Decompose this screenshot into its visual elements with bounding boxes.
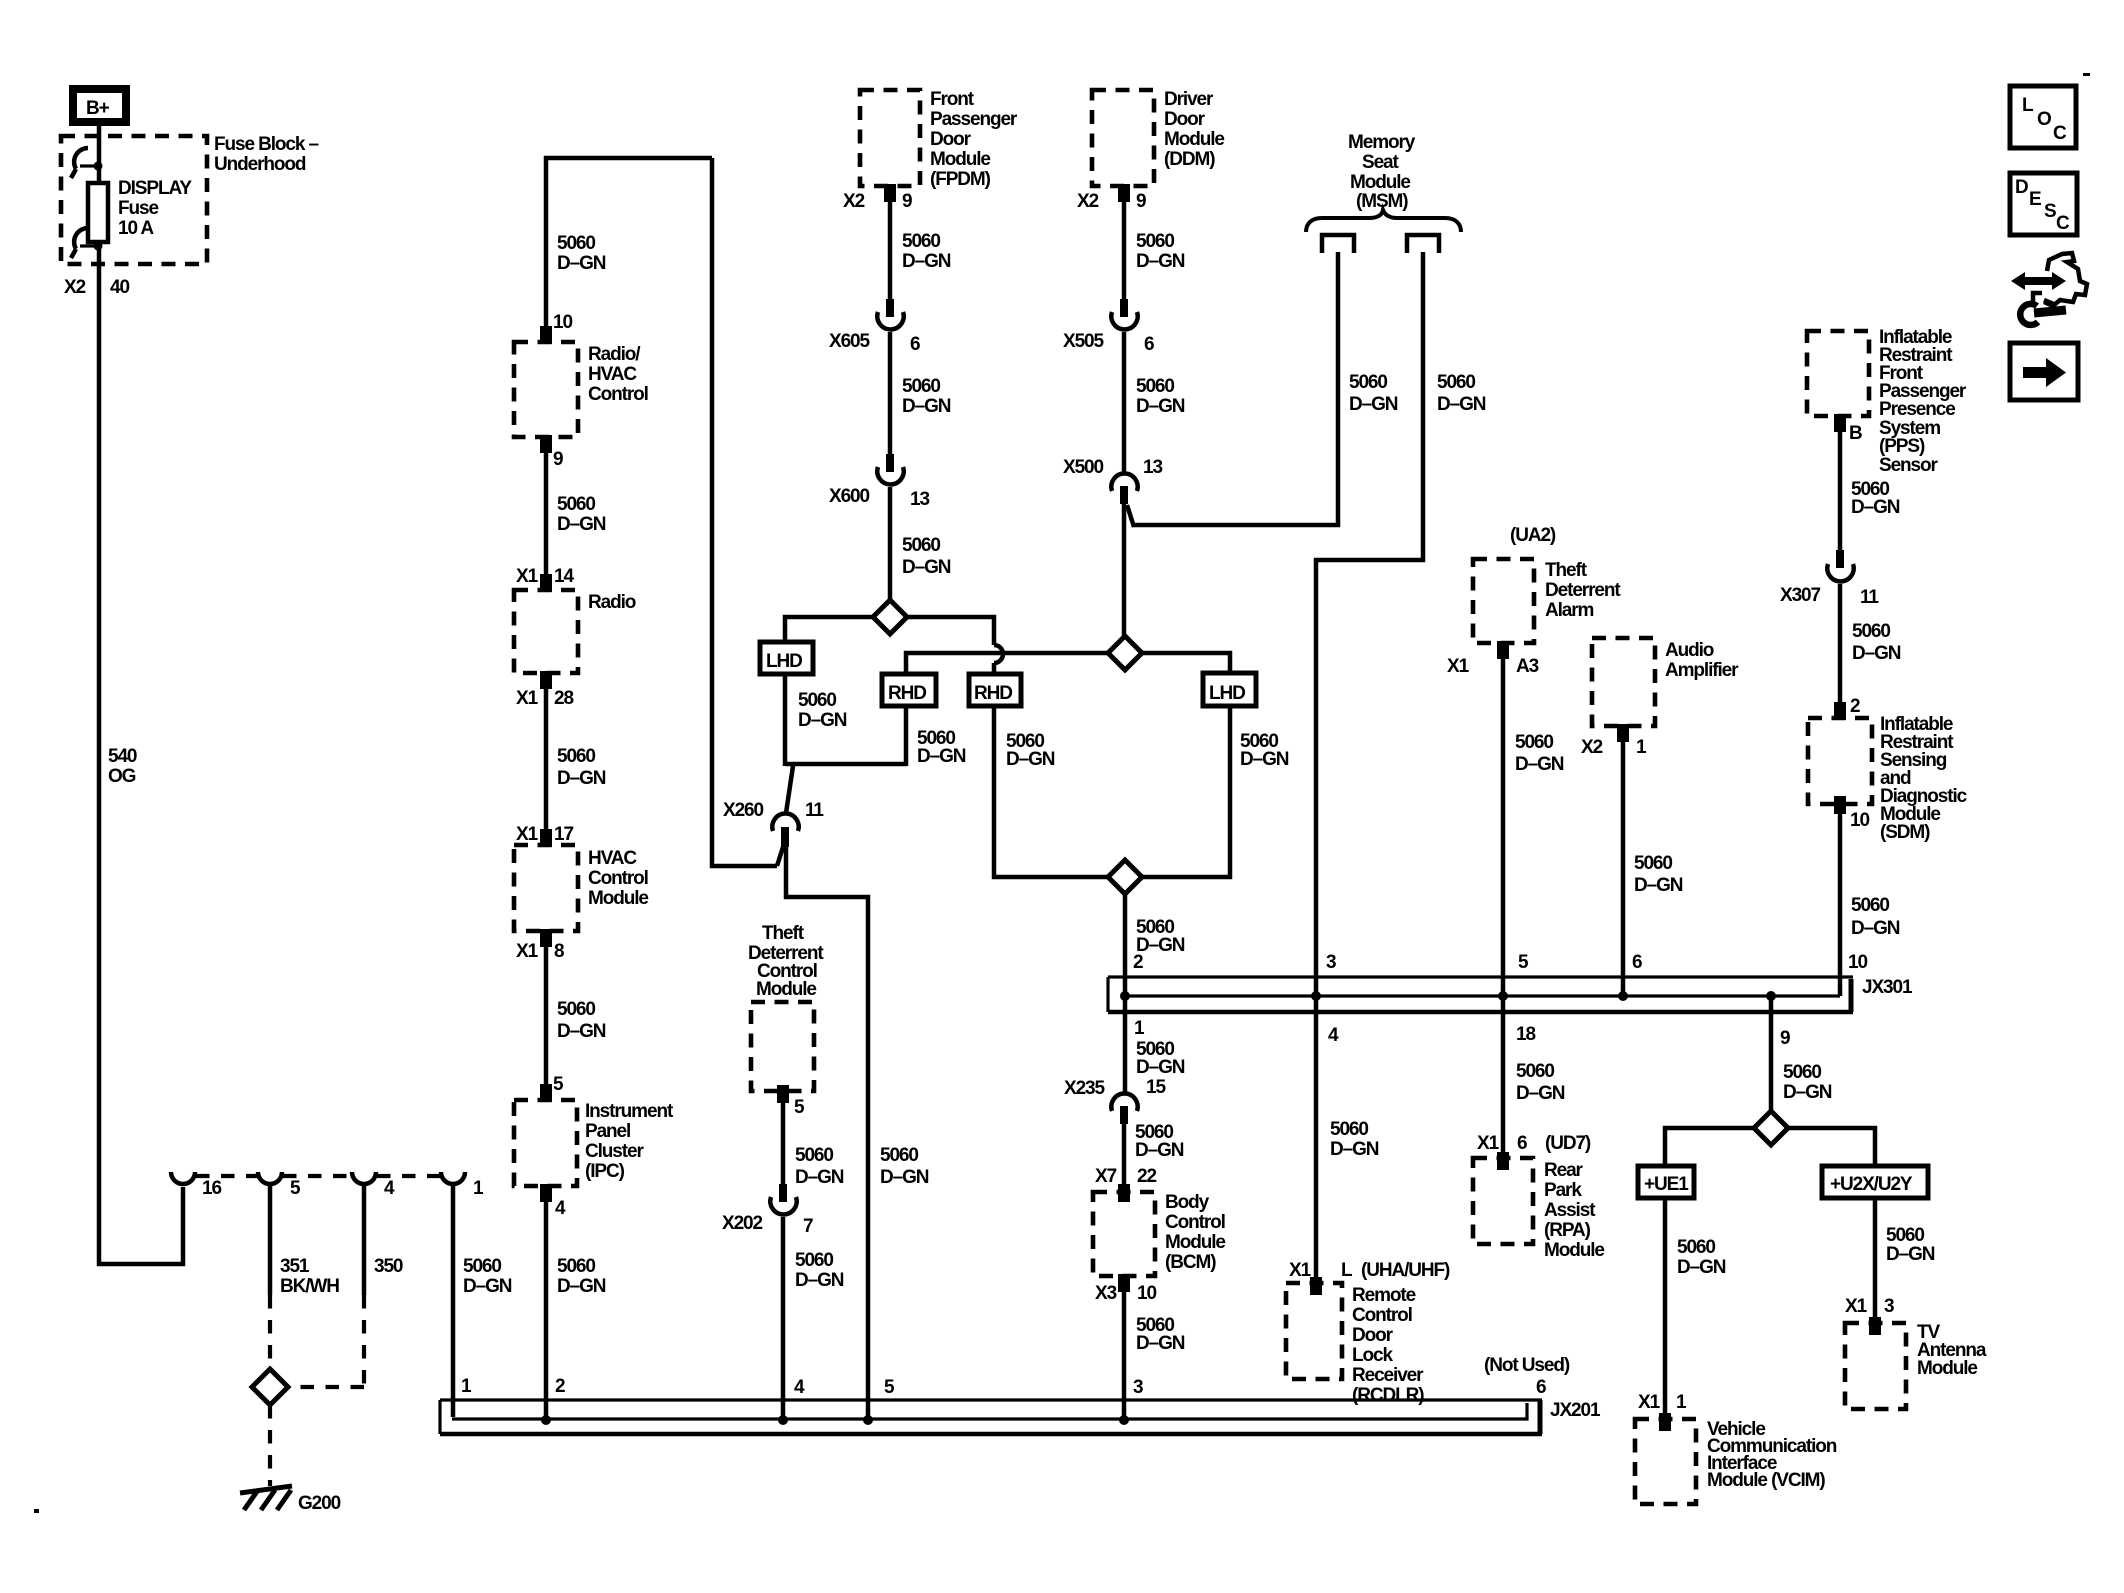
label Instrument Panel Cluster (IPC) (585, 1101, 674, 1182)
svg-text:10: 10 (1850, 810, 1869, 831)
connector label X1 L (UHA/UHF) (1289, 1260, 1450, 1281)
svg-text:5060: 5060 (1677, 1237, 1715, 1258)
svg-text:7: 7 (803, 1216, 813, 1237)
svg-text:Control: Control (1165, 1212, 1225, 1233)
Instrument Panel Cluster dashed box (514, 1100, 577, 1186)
wire RHD2 down to S3 (994, 706, 1108, 877)
svg-text:Sensor: Sensor (1879, 455, 1939, 476)
label 5060 D-GN (902, 535, 951, 578)
connector label X7 22 (1095, 1166, 1156, 1187)
svg-text:D–GN: D–GN (1677, 1257, 1726, 1278)
labels X505 6 (1063, 331, 1154, 355)
label 5060 D-GN (1677, 1237, 1726, 1278)
svg-text:5060: 5060 (880, 1145, 918, 1166)
pin stub (1497, 1152, 1509, 1170)
svg-text:Underhood: Underhood (214, 154, 306, 175)
svg-text:9: 9 (553, 449, 563, 470)
svg-text:Module: Module (1917, 1358, 1977, 1379)
connector label X1 3 TV (1845, 1296, 1894, 1317)
svg-text:Lock: Lock (1352, 1345, 1393, 1366)
labels X500 13 (1063, 457, 1162, 478)
pin stub (540, 1084, 552, 1102)
label Audio Amplifier (1665, 640, 1739, 681)
svg-text:B+: B+ (86, 98, 110, 119)
label 5060 D-GN (557, 999, 606, 1042)
svg-text:X1: X1 (516, 566, 539, 587)
label 5060 D-GN (557, 494, 606, 535)
svg-text:D–GN: D–GN (1437, 394, 1486, 415)
label 5060 D-GN (902, 231, 951, 272)
svg-text:D–GN: D–GN (1851, 918, 1900, 939)
svg-text:Door: Door (1352, 1325, 1394, 1346)
svg-text:S: S (2044, 201, 2056, 222)
wire 5060 D-GN DDM to X505 (1122, 186, 1127, 302)
RHD variant box 2 (969, 674, 1021, 706)
svg-text:Control: Control (1352, 1305, 1412, 1326)
svg-text:X605: X605 (829, 331, 871, 352)
label 5060 D-GN (557, 746, 606, 789)
svg-text:Memory: Memory (1348, 132, 1416, 153)
svg-text:OG: OG (108, 766, 136, 787)
svg-text:Presence: Presence (1879, 399, 1955, 420)
svg-text:4: 4 (555, 1198, 566, 1219)
connector label X2 9 DDM (1077, 191, 1146, 212)
svg-text:A3: A3 (1516, 656, 1539, 677)
svg-text:HVAC: HVAC (588, 848, 637, 869)
wire 5060 D-GN hvac to IPC (544, 931, 549, 1100)
svg-text:X1: X1 (516, 941, 539, 962)
TV Antenna Module dashed box (1845, 1323, 1906, 1409)
svg-text:X3: X3 (1095, 1283, 1117, 1304)
wire LHD2 down to S3 (1142, 706, 1230, 877)
svg-text:(RPA): (RPA) (1544, 1220, 1591, 1241)
svg-text:X1: X1 (1845, 1296, 1868, 1317)
connector X260 pin 11 (772, 766, 798, 866)
svg-text:5060: 5060 (1136, 231, 1174, 252)
svg-text:Radio: Radio (588, 592, 636, 613)
ground symbol G200 (240, 1486, 292, 1510)
svg-text:2: 2 (1133, 952, 1143, 973)
svg-text:13: 13 (1143, 457, 1162, 478)
svg-text:D: D (2015, 177, 2028, 198)
svg-text:(UD7): (UD7) (1545, 1133, 1591, 1154)
wire MSM right leg (1316, 252, 1423, 1283)
label 351 BK/WH (280, 1256, 339, 1297)
pin stub (540, 326, 552, 344)
wire 5060 D-GN X307 to SDM (1838, 584, 1843, 718)
svg-text:D–GN: D–GN (1330, 1139, 1379, 1160)
wire 5060 D-GN FPDM to X605 (888, 186, 893, 302)
svg-text:10: 10 (1137, 1283, 1156, 1304)
svg-text:X235: X235 (1064, 1078, 1106, 1099)
svg-text:Control: Control (588, 384, 648, 405)
svg-text:Module (VCIM): Module (VCIM) (1707, 1470, 1825, 1491)
Rear Park Assist Module dashed box (1473, 1158, 1533, 1244)
svg-text:Remote: Remote (1352, 1285, 1416, 1306)
label 5060 D-GN right leg (1437, 372, 1486, 415)
fuse block downstream terminal arc (71, 228, 103, 258)
svg-text:10: 10 (1848, 952, 1867, 973)
wire S2 to LHD2 (1142, 653, 1230, 676)
label Fuse Block - Underhood (214, 134, 319, 175)
svg-text:5060: 5060 (795, 1145, 833, 1166)
svg-text:D–GN: D–GN (1886, 1244, 1935, 1265)
svg-text:5060: 5060 (557, 494, 595, 515)
Body Control Module dashed box (1093, 1192, 1155, 1276)
svg-text:D–GN: D–GN (795, 1270, 844, 1291)
pin stub (1834, 702, 1846, 720)
wire X202 to JX201 pin 4 (781, 1217, 786, 1419)
svg-text:Module: Module (588, 888, 648, 909)
svg-text:D–GN: D–GN (557, 1276, 606, 1297)
page mark (2083, 73, 2090, 76)
svg-text:(SDM): (SDM) (1880, 822, 1930, 843)
wire 5060 D-GN radio/hvac to radio (544, 437, 549, 590)
svg-text:9: 9 (1780, 1028, 1790, 1049)
svg-text:DISPLAY: DISPLAY (118, 178, 192, 199)
wire splice to LHD variant (785, 617, 873, 644)
connector label X1 28 (516, 688, 573, 709)
junction dot BCM JX201 (1119, 1415, 1129, 1425)
wire +U2X/U2Y to TV antenna (1873, 1198, 1878, 1323)
pin stub (540, 574, 552, 592)
svg-text:17: 17 (554, 824, 573, 845)
label 5060 D-GN (880, 1145, 929, 1188)
svg-text:Radio/: Radio/ (588, 344, 641, 365)
svg-text:5060: 5060 (798, 690, 836, 711)
wire memory seat left leg join (1127, 252, 1338, 527)
wire 5060 D-GN amp to JX301 (1621, 726, 1626, 996)
label 5060 D-GN (1135, 1122, 1184, 1161)
wire 5060 D-GN X605 to X600 (888, 332, 893, 457)
svg-text:Module: Module (756, 979, 816, 1000)
svg-text:O: O (2037, 109, 2051, 130)
svg-text:5060: 5060 (1349, 372, 1387, 393)
wire 5060 D-GN alarm to JX301 to RPA (1501, 643, 1506, 1158)
icon DESC box (2010, 173, 2077, 235)
svg-text:3: 3 (1326, 952, 1336, 973)
svg-text:RHD: RHD (974, 683, 1012, 704)
svg-text:D–GN: D–GN (1634, 875, 1683, 896)
svg-text:X260: X260 (723, 800, 764, 821)
svg-text:350: 350 (374, 1256, 403, 1277)
svg-text:X2: X2 (1077, 191, 1099, 212)
junction bus JX201 (440, 1400, 1542, 1434)
junction dot pin6 JX301 (1618, 991, 1628, 1001)
wire pin 9 JX301 to splice S4 (1769, 996, 1774, 1111)
svg-text:Park: Park (1544, 1180, 1582, 1201)
svg-text:5060: 5060 (463, 1256, 501, 1277)
svg-text:D–GN: D–GN (1516, 1083, 1565, 1104)
wire LHD1 down (783, 674, 788, 766)
svg-text:Door: Door (1164, 109, 1206, 130)
svg-text:5: 5 (290, 1178, 301, 1199)
svg-text:5060: 5060 (1516, 1061, 1554, 1082)
svg-text:D–GN: D–GN (798, 710, 847, 731)
dashed wire 350 to splice (290, 1295, 364, 1387)
Inflatable Restraint PPS Sensor dashed box (1807, 331, 1869, 416)
junction dot X260 branch JX201 (863, 1415, 873, 1425)
svg-text:5060: 5060 (902, 535, 940, 556)
Inflatable Restraint SDM dashed box (1808, 718, 1872, 804)
pin stub (1834, 796, 1846, 814)
wire 540 OG from fuse to lower-left run (99, 242, 183, 1264)
Audio Amplifier dashed box (1592, 638, 1655, 726)
label 540 OG (108, 746, 137, 787)
svg-text:5060: 5060 (1886, 1225, 1924, 1246)
wire 5060 D-GN pin1 to JX201 (451, 1184, 456, 1417)
wire +UE1 to VCIM (1663, 1198, 1668, 1419)
+U2X/U2Y option box (1822, 1166, 1928, 1198)
label 5060 D-GN (1851, 479, 1900, 518)
svg-text:9: 9 (1136, 191, 1146, 212)
icon next-page arrow box (2010, 343, 2078, 400)
dashed wire 351 to splice (268, 1295, 272, 1369)
label 5060 D-GN (917, 728, 966, 767)
label Radio/ HVAC Control (588, 344, 648, 405)
pin stub (1310, 1277, 1322, 1295)
Radio dashed box (514, 590, 578, 673)
splice diamond S2 (1108, 636, 1142, 670)
svg-text:Module: Module (1164, 129, 1224, 150)
pin stub (884, 184, 896, 202)
fuse block dashed outline Fuse Block Underhood (61, 136, 207, 264)
wire radio/hvac feed from X260 riser (546, 158, 712, 342)
svg-text:4: 4 (384, 1178, 395, 1199)
connector arc pin 1 (441, 1172, 465, 1184)
svg-text:Passenger: Passenger (930, 109, 1018, 130)
svg-text:(FPDM): (FPDM) (930, 169, 991, 190)
svg-text:11: 11 (805, 800, 824, 821)
svg-text:Panel: Panel (585, 1121, 630, 1142)
label 5060 D-GN to X235 (1136, 1039, 1185, 1078)
connector X605 pin 6 (877, 299, 903, 329)
svg-text:D–GN: D–GN (1136, 396, 1185, 417)
svg-text:5060: 5060 (1515, 732, 1553, 753)
svg-text:D–GN: D–GN (880, 1167, 929, 1188)
wire crossover hop (994, 645, 1003, 676)
HVAC Control Module dashed box (514, 845, 578, 931)
label Inflatable Restraint Front Passenger Presence System (PPS) Sensor (1879, 327, 1967, 476)
label Inflatable Restraint Sensing and Diagnostic Module (SDM) (1880, 714, 1968, 843)
pin stub (1118, 1274, 1130, 1292)
svg-text:D–GN: D–GN (463, 1276, 512, 1297)
label 5060 D-GN (557, 233, 606, 274)
svg-text:5060: 5060 (557, 746, 595, 767)
svg-text:G200: G200 (298, 1493, 341, 1514)
svg-text:8: 8 (554, 941, 564, 962)
svg-text:D–GN: D–GN (557, 1021, 606, 1042)
svg-text:5060: 5060 (1437, 372, 1475, 393)
svg-text:D–GN: D–GN (1783, 1082, 1832, 1103)
splice diamond ground branch (252, 1369, 288, 1405)
connector arc pin 5 (258, 1172, 282, 1184)
label 5060 D-GN (1851, 895, 1900, 939)
svg-text:D–GN: D–GN (1349, 394, 1398, 415)
svg-text:Driver: Driver (1164, 89, 1214, 110)
label Memory Seat Module (MSM) (1348, 132, 1416, 212)
svg-text:X1: X1 (1477, 1133, 1500, 1154)
svg-text:JX201: JX201 (1550, 1400, 1601, 1421)
label 5060 D-GN (463, 1256, 512, 1297)
svg-text:+UE1: +UE1 (1644, 1174, 1689, 1195)
svg-text:1: 1 (461, 1376, 472, 1397)
wire X500 to splice S2 (1122, 503, 1127, 638)
svg-text:Instrument: Instrument (585, 1101, 674, 1122)
connector label X2 9 FPDM (843, 191, 912, 212)
wire RHD1 down (904, 706, 909, 766)
svg-text:X2: X2 (1581, 737, 1603, 758)
label 5060 D-GN (902, 376, 951, 417)
svg-text:(Not Used): (Not Used) (1484, 1355, 1570, 1376)
svg-text:D–GN: D–GN (902, 557, 951, 578)
junction dot IPC JX201 (541, 1415, 551, 1425)
svg-text:Theft: Theft (1545, 560, 1588, 581)
label 5060 D-GN (1136, 917, 1185, 956)
+UE1 option box (1638, 1166, 1694, 1198)
wire X235 to BCM (1122, 1123, 1127, 1192)
connector X500 pin 13 (1111, 474, 1137, 504)
wire S2 to RHD1 top run (906, 653, 1108, 676)
MSM pin frame left (1322, 235, 1354, 253)
svg-text:LHD: LHD (766, 651, 802, 672)
svg-text:D–GN: D–GN (557, 253, 606, 274)
pin stub (1118, 1184, 1130, 1202)
svg-text:JX301: JX301 (1862, 977, 1913, 998)
connector X202 pin 7 (770, 1184, 796, 1214)
svg-text:6: 6 (910, 334, 920, 355)
label Remote Control Door Lock Receiver (RCDLR) (1352, 1285, 1424, 1406)
svg-text:+U2X/U2Y: +U2X/U2Y (1830, 1174, 1913, 1195)
svg-text:LHD: LHD (1209, 683, 1245, 704)
label 5060 D-GN (1006, 731, 1055, 770)
wire 5060 D-GN IPC to JX201 (544, 1186, 549, 1419)
svg-text:D–GN: D–GN (902, 251, 951, 272)
pin stub (1834, 414, 1846, 432)
pin stub (1869, 1317, 1881, 1335)
svg-text:X307: X307 (1780, 585, 1821, 606)
battery feed B+ symbol (69, 85, 130, 126)
svg-text:5: 5 (794, 1097, 805, 1118)
label HVAC Control Module (588, 848, 648, 909)
svg-text:HVAC: HVAC (588, 364, 637, 385)
label 5060 D-GN (1852, 621, 1901, 664)
svg-text:D–GN: D–GN (1852, 643, 1901, 664)
wire 5060 D-GN PPS to X307 (1838, 416, 1843, 552)
svg-text:16: 16 (202, 1178, 221, 1199)
label Rear Park Assist (RPA) Module (1544, 1160, 1604, 1261)
svg-text:11: 11 (1860, 587, 1879, 608)
Driver Door Module dashed box (1092, 90, 1154, 186)
svg-text:Deterrent: Deterrent (1545, 580, 1621, 601)
labels X260 11 (723, 800, 824, 821)
svg-text:D–GN: D–GN (795, 1167, 844, 1188)
svg-text:14: 14 (554, 566, 574, 587)
svg-text:(UA2): (UA2) (1510, 525, 1556, 546)
svg-text:5: 5 (884, 1377, 895, 1398)
connector X505 pin 6 (1111, 299, 1137, 329)
svg-text:X1: X1 (1289, 1260, 1312, 1281)
connector label X1 8 (516, 941, 564, 962)
dashed wire splice to ground (268, 1405, 272, 1486)
svg-text:3: 3 (1133, 1377, 1143, 1398)
svg-text:1: 1 (1636, 737, 1647, 758)
svg-text:Fuse Block –: Fuse Block – (214, 134, 319, 155)
label 5060 D-GN (795, 1250, 844, 1291)
svg-text:X500: X500 (1063, 457, 1104, 478)
Remote Control Door Lock Receiver dashed box (1286, 1283, 1342, 1379)
svg-text:6: 6 (1632, 952, 1642, 973)
svg-text:5060: 5060 (902, 376, 940, 397)
svg-text:540: 540 (108, 746, 137, 767)
Front Passenger Door Module dashed box (860, 90, 920, 186)
svg-text:Cluster: Cluster (585, 1141, 644, 1162)
svg-text:X202: X202 (722, 1213, 763, 1234)
label 5060 D-GN (1240, 731, 1289, 770)
svg-text:40: 40 (110, 277, 129, 298)
svg-text:(IPC): (IPC) (585, 1161, 625, 1182)
svg-text:D–GN: D–GN (1136, 935, 1185, 956)
svg-text:D–GN: D–GN (1136, 251, 1185, 272)
svg-text:5060: 5060 (902, 231, 940, 252)
svg-text:5060: 5060 (1330, 1119, 1368, 1140)
svg-text:X2: X2 (843, 191, 865, 212)
label 5060 D-GN left leg (1349, 372, 1398, 415)
Radio/HVAC Control dashed box (514, 342, 578, 437)
label Front Passenger Door Module (FPDM) (930, 89, 1018, 190)
svg-text:5060: 5060 (1136, 376, 1174, 397)
label Theft Deterrent Control Module (748, 923, 824, 1000)
connector label X2 40 (64, 277, 129, 298)
svg-text:D–GN: D–GN (557, 514, 606, 535)
wire S4 to +UE1 (1665, 1128, 1754, 1166)
svg-text:D–GN: D–GN (1136, 1057, 1185, 1078)
RHD variant box 1 (882, 674, 936, 706)
wire S3 to JX301 and X235 (1123, 894, 1128, 1094)
svg-text:5060: 5060 (1634, 853, 1672, 874)
svg-text:5060: 5060 (795, 1250, 833, 1271)
labels X605 6 (829, 331, 920, 355)
svg-text:2: 2 (555, 1376, 565, 1397)
svg-text:RHD: RHD (888, 683, 926, 704)
fuse DISPLAY Fuse 10 A (88, 183, 108, 242)
svg-text:D–GN: D–GN (557, 768, 606, 789)
svg-text:10: 10 (553, 312, 572, 333)
connector X307 pin 11 (1827, 550, 1853, 581)
svg-text:X505: X505 (1063, 331, 1105, 352)
pin stub (540, 435, 552, 453)
svg-text:(UHA/UHF): (UHA/UHF) (1361, 1260, 1450, 1281)
svg-text:D–GN: D–GN (902, 396, 951, 417)
wire 5060 D-GN radio to hvac control module (544, 673, 549, 845)
Theft Deterrent Control Module dashed box (751, 1002, 814, 1091)
pin labels above JX201 (461, 1376, 1143, 1398)
connector X235 pin 15 (1111, 1094, 1137, 1124)
page mark bottom-left (34, 1509, 39, 1513)
junction dot pin5 JX301 (1498, 991, 1508, 1001)
svg-text:Seat: Seat (1362, 152, 1400, 173)
labels X600 13 (829, 486, 929, 510)
connector arc pin 16 (171, 1172, 195, 1184)
svg-text:Assist: Assist (1544, 1200, 1596, 1221)
labels X307 11 (1780, 585, 1879, 608)
label 5060 D-GN (557, 1256, 606, 1297)
label Body Control Module (BCM) (1165, 1192, 1225, 1273)
wire splice to RHD variant with hop (907, 617, 994, 645)
svg-text:5060: 5060 (1852, 621, 1890, 642)
connector label X3 10 (1095, 1283, 1156, 1304)
connector arc pin 4 (352, 1172, 376, 1184)
